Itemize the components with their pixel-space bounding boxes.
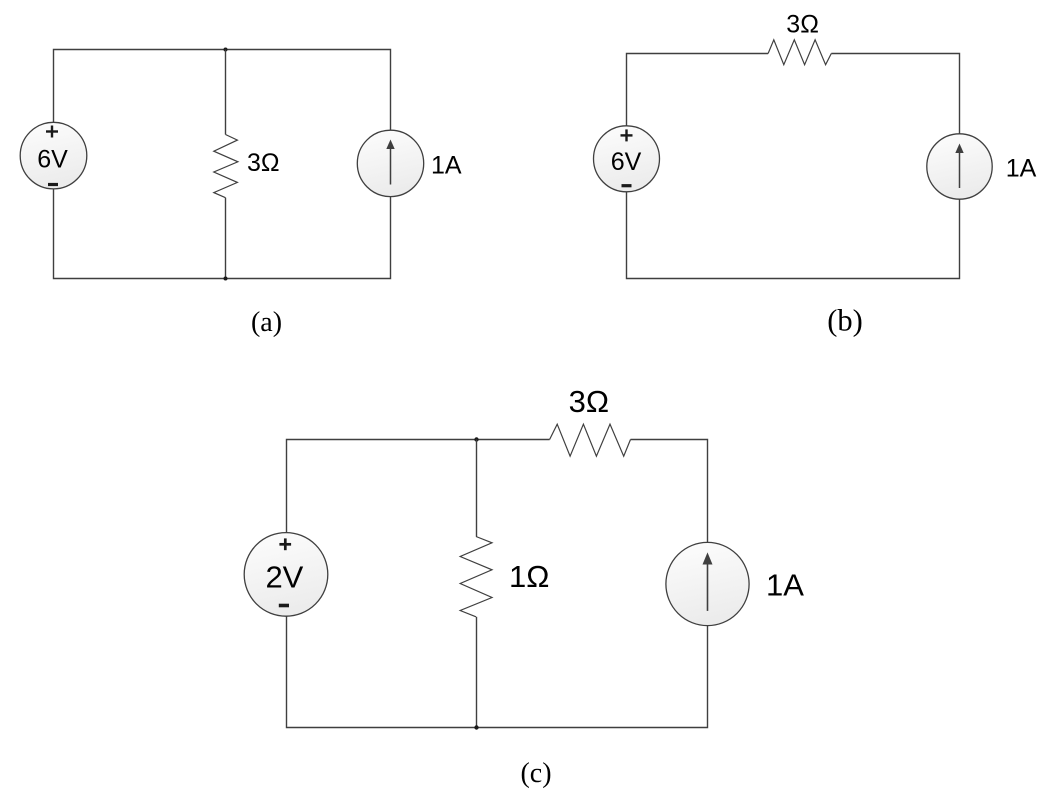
svg-text:(b): (b) <box>827 304 863 338</box>
wire circuit (a) top rail with left and right corners <box>54 50 391 131</box>
svg-text:3Ω: 3Ω <box>247 149 280 177</box>
node circuit (a) top junction <box>224 48 228 52</box>
svg-text:1A: 1A <box>431 151 462 179</box>
svg-text:(a): (a) <box>251 307 282 338</box>
svg-text:3Ω: 3Ω <box>786 10 819 38</box>
svg-text:(c): (c) <box>520 758 551 789</box>
current source 1A circuit (c) <box>666 542 749 625</box>
svg-text:1A: 1A <box>1006 154 1037 182</box>
svg-text:6V: 6V <box>37 146 68 174</box>
svg-text:1A: 1A <box>766 567 804 602</box>
node circuit (c) bottom junction <box>474 725 478 729</box>
wire circuit (c) top rail left with corner <box>287 440 550 533</box>
wire circuit (c) middle branch upper <box>476 440 478 537</box>
wire circuit (a) middle branch upper <box>225 50 227 135</box>
wire circuit (c) middle branch lower <box>476 617 478 728</box>
svg-text:2V: 2V <box>265 560 303 595</box>
current source 1A circuit (b) <box>927 134 992 199</box>
wire circuit (a) bottom rail with left and right corners <box>54 189 391 279</box>
svg-text:1Ω: 1Ω <box>509 559 549 594</box>
resistor 3ohm circuit (b) <box>768 40 831 65</box>
wire circuit (c) bottom rail right part with corner <box>477 626 708 728</box>
voltage source 2V circuit (c) <box>244 533 328 617</box>
wire circuit (b) top rail left with corner <box>627 54 769 127</box>
node circuit (a) bottom junction <box>224 277 228 281</box>
svg-text:3Ω: 3Ω <box>569 384 609 419</box>
wire circuit (b) top rail right with corner <box>831 54 959 134</box>
resistor 3ohm circuit (a) <box>214 135 238 198</box>
resistor 3ohm circuit (c) <box>550 424 631 456</box>
resistor 1ohm circuit (c) <box>460 537 492 617</box>
wire circuit (a) middle branch lower <box>225 198 227 279</box>
wire circuit (c) top rail right with corner <box>631 440 708 543</box>
current source 1A circuit (a) <box>357 130 423 196</box>
svg-text:6V: 6V <box>611 148 642 176</box>
voltage source 6V circuit (a) <box>20 122 87 189</box>
wire circuit (c) left branch lower <box>287 616 477 728</box>
node circuit (c) top junction <box>474 437 478 441</box>
voltage source 6V circuit (b) <box>594 126 660 192</box>
wire circuit (b) bottom rail with corners <box>627 192 960 279</box>
